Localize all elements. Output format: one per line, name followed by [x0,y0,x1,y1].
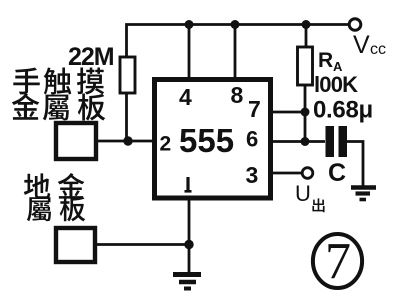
label 金屬板 (metal plate) [12,93,106,120]
wire touch plate to pin 2 [96,140,154,143]
svg-text:3: 3 [246,162,259,188]
svg-text:4: 4 [179,84,192,110]
label 手触摸 (hand-touch) [13,67,104,94]
capacitor C left plate [326,126,335,157]
svg-text:0.68μ: 0.68μ [313,97,373,124]
capacitor C right plate [339,126,348,157]
svg-text:l00K: l00K [314,72,358,97]
svg-text:22M: 22M [68,43,114,71]
figure number circle [313,234,362,288]
wire RA top to rail [305,25,308,48]
terminal U out [302,168,313,179]
wire RA bottom vertical to pin6 node [304,85,307,142]
wire top Vcc rail [127,25,351,58]
ground symbol (bottom center) [173,275,201,289]
svg-text:U: U [295,181,311,206]
node junction rail/RA [302,20,311,29]
wire capacitor right plate to ground [347,142,363,187]
ground symbol (right, capacitor) [351,188,376,200]
wire ground plate to node [96,243,189,246]
wire pin 6 to capacitor [271,140,325,143]
svg-text:V: V [353,31,370,59]
svg-text:555: 555 [179,122,234,159]
svg-text:cc: cc [370,41,386,58]
node junction rail/pin4 [185,20,194,29]
svg-text:2: 2 [160,133,172,156]
wire 22M bottom to node pin2 [125,93,128,141]
ground metal plate [56,228,95,262]
svg-text:6: 6 [246,127,258,152]
pin label 1 [185,177,192,192]
node junction pin2 [123,136,132,145]
wire pin 1 down to ground node [188,198,191,272]
resistor 22M [120,57,135,93]
touch metal plate (hand) [56,123,96,159]
node junction pin7/RA [301,108,310,117]
terminal Vcc [349,19,361,31]
node junction pin1/ground [184,240,193,249]
wire pin 4 to rail [188,25,191,80]
IC U1 555 body [155,80,271,199]
node junction rail/pin8 [231,20,240,29]
svg-text:7: 7 [325,233,351,290]
resistor RA [298,47,313,85]
wire pin 3 to output terminal [271,172,302,175]
svg-text:7: 7 [248,96,261,122]
node junction pin6/cap [301,137,310,146]
wire pin 7 stub [271,111,305,114]
wire pin 8 to rail [234,25,237,80]
svg-text:8: 8 [231,82,244,108]
label 地金 (ground metal-) [24,173,85,199]
svg-text:C: C [328,159,346,187]
label 屬板 (-plate) [27,196,85,221]
svg-text:R: R [318,49,333,72]
